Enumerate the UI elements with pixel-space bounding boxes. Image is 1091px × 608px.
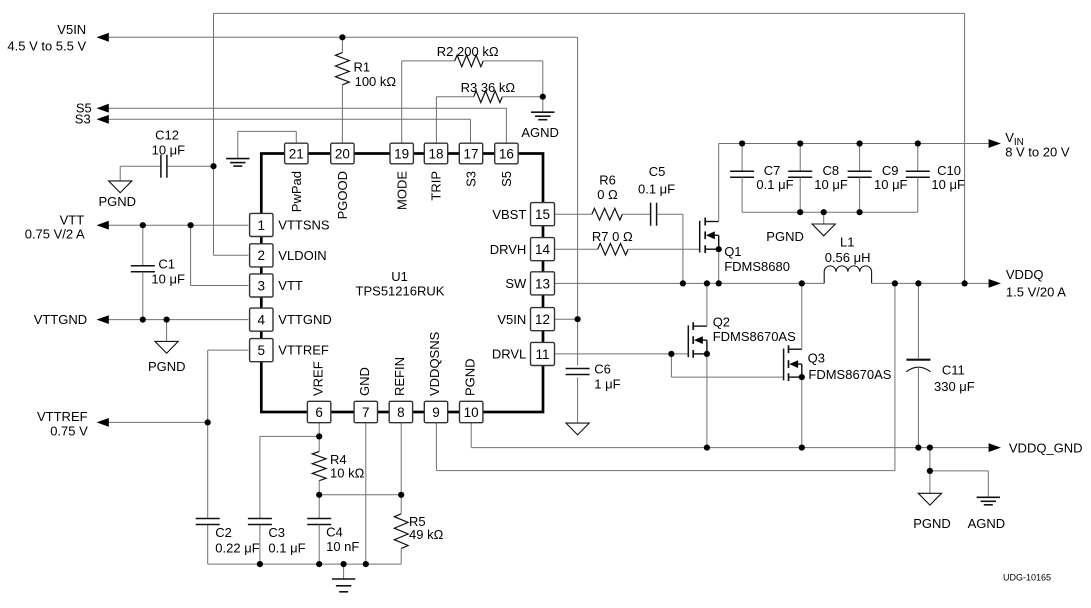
svg-text:REFIN: REFIN [392,357,407,396]
svg-text:C3: C3 [268,525,285,540]
svg-text:V5IN: V5IN [57,22,86,37]
svg-text:0.22 μF: 0.22 μF [215,540,259,555]
svg-text:L1: L1 [840,235,854,250]
svg-text:PGND: PGND [462,358,477,396]
svg-text:0.56 μH: 0.56 μH [825,250,871,265]
svg-text:VLDOIN: VLDOIN [278,248,326,263]
svg-text:C9: C9 [882,163,899,178]
svg-text:10 μF: 10 μF [931,177,965,192]
svg-text:VBST: VBST [492,207,526,222]
svg-text:10: 10 [464,405,479,420]
svg-text:TPS51216RUK: TPS51216RUK [356,284,445,299]
svg-text:8 V to 20 V: 8 V to 20 V [1005,144,1070,159]
svg-text:0.75 V/2 A: 0.75 V/2 A [25,226,85,241]
svg-text:R6: R6 [599,173,616,188]
svg-text:C1: C1 [158,256,175,271]
svg-text:11: 11 [535,347,549,362]
svg-text:4: 4 [258,313,266,328]
svg-text:8: 8 [397,405,405,420]
svg-text:13: 13 [535,276,550,291]
svg-text:100 kΩ: 100 kΩ [355,74,397,89]
svg-text:PwPad: PwPad [289,171,304,212]
svg-text:C10: C10 [937,163,961,178]
svg-text:49 kΩ: 49 kΩ [409,527,444,542]
svg-text:19: 19 [394,146,409,161]
svg-text:UDG-10165: UDG-10165 [1003,573,1051,583]
svg-text:VTTGND: VTTGND [34,312,87,327]
svg-text:0.1 μF: 0.1 μF [638,182,675,197]
svg-text:C2: C2 [215,525,232,540]
svg-text:17: 17 [463,146,478,161]
svg-text:18: 18 [428,146,443,161]
svg-text:PGND: PGND [99,194,137,209]
svg-text:VTTREF: VTTREF [37,409,88,424]
svg-text:MODE: MODE [394,171,409,210]
svg-text:6: 6 [315,405,323,420]
svg-text:1.5 V/20 A: 1.5 V/20 A [1006,285,1066,300]
svg-text:0 Ω: 0 Ω [597,187,618,202]
svg-text:330 μF: 330 μF [934,379,975,394]
svg-text:R7 0 Ω: R7 0 Ω [592,229,633,244]
svg-text:FDMS8670AS: FDMS8670AS [808,367,891,382]
svg-text:PGOOD: PGOOD [335,171,350,219]
svg-text:R1: R1 [354,60,371,75]
svg-text:AGND: AGND [968,516,1006,531]
svg-text:AGND: AGND [521,125,559,140]
svg-text:10 μF: 10 μF [874,177,908,192]
svg-text:C7: C7 [764,163,781,178]
svg-text:PGND: PGND [148,359,186,374]
svg-text:3: 3 [258,278,266,293]
svg-text:VTTSNS: VTTSNS [278,218,330,233]
svg-text:10 kΩ: 10 kΩ [330,465,365,480]
svg-text:7: 7 [362,405,370,420]
svg-text:9: 9 [432,405,440,420]
svg-text:U1: U1 [391,269,408,284]
svg-text:R2 200 kΩ: R2 200 kΩ [437,44,499,59]
svg-text:GND: GND [357,367,372,396]
svg-text:Q3: Q3 [808,351,825,366]
svg-text:10 μF: 10 μF [814,177,848,192]
svg-text:C4: C4 [326,525,343,540]
svg-text:C8: C8 [823,163,840,178]
svg-text:DRVH: DRVH [490,242,527,257]
svg-text:FDMS8670AS: FDMS8670AS [713,329,796,344]
svg-text:PGND: PGND [766,229,804,244]
svg-text:C12: C12 [155,127,179,142]
svg-text:10 nF: 10 nF [326,539,359,554]
svg-text:4.5 V to 5.5 V: 4.5 V to 5.5 V [7,39,86,54]
svg-text:DRVL: DRVL [492,347,526,362]
svg-text:12: 12 [535,312,550,327]
svg-text:14: 14 [535,242,551,257]
svg-text:VTTREF: VTTREF [278,343,329,358]
svg-text:Q1: Q1 [724,244,741,259]
svg-text:Q2: Q2 [713,314,730,329]
svg-text:16: 16 [499,146,514,161]
svg-text:C5: C5 [649,164,666,179]
svg-text:VDDQ: VDDQ [1006,267,1044,282]
svg-text:VTT: VTT [278,278,303,293]
svg-text:21: 21 [289,146,304,161]
svg-text:VTTGND: VTTGND [278,312,331,327]
svg-text:VREF: VREF [310,361,325,396]
svg-text:2: 2 [258,248,266,263]
svg-text:10 μF: 10 μF [151,271,185,286]
svg-text:10 μF: 10 μF [152,143,186,158]
svg-text:VTT: VTT [60,212,85,227]
svg-text:1 μF: 1 μF [594,376,620,391]
svg-text:1: 1 [258,218,266,233]
svg-text:R3 36 kΩ: R3 36 kΩ [461,80,516,95]
svg-text:C11: C11 [942,362,965,377]
svg-text:VDDQSNS: VDDQSNS [427,331,442,396]
svg-text:5: 5 [258,343,266,358]
svg-text:S5: S5 [499,171,514,187]
svg-text:TRIP: TRIP [429,171,444,201]
svg-text:S3: S3 [464,171,479,187]
svg-text:FDMS8680: FDMS8680 [724,259,790,274]
svg-text:SW: SW [505,276,527,291]
svg-text:VDDQ_GND: VDDQ_GND [1009,440,1083,455]
svg-text:S3: S3 [75,112,91,127]
svg-text:15: 15 [535,207,550,222]
svg-text:0.75 V: 0.75 V [50,424,88,439]
svg-text:V5IN: V5IN [497,312,526,327]
svg-text:20: 20 [335,146,350,161]
svg-text:0.1 μF: 0.1 μF [268,540,305,555]
svg-text:PGND: PGND [913,516,951,531]
svg-text:C6: C6 [594,362,611,377]
svg-text:0.1 μF: 0.1 μF [756,177,793,192]
